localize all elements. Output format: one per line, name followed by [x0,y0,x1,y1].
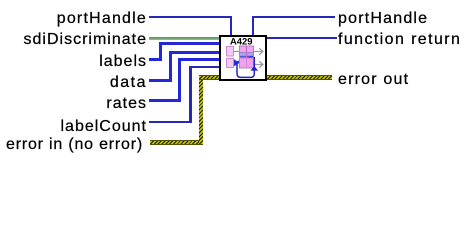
glyph blue diagonal [236,57,253,63]
glyph connector 1 [234,51,241,53]
glyph small square 2 [227,59,234,68]
glyph gray arrow 1 [254,48,263,55]
label error in (no error) [6,136,143,154]
label labels [0,53,147,71]
label rates [0,95,147,113]
wire rates horizontal to icon [178,58,220,61]
wire error-out horizontal [267,75,332,80]
glyph big rect 1 (2x2 grid) [240,46,254,53]
label labelCount [0,118,147,136]
wire rates vertical [178,58,181,102]
glyph loop [237,57,254,77]
label data [0,74,147,92]
wire portHandle-right horizontal [252,16,335,18]
wire labelCount horizontal to icon [189,66,220,68]
wire data vertical [169,51,172,82]
label portHandle (right) [338,10,428,28]
wire error-in vertical [199,75,203,145]
op icon A429 Discriminate VI [219,35,267,81]
wire labels vertical [159,42,162,61]
wire sdiDiscriminate green [149,37,220,40]
icon border [220,36,266,80]
wire portHandle-right vertical [252,16,254,35]
wire portHandle-left horizontal [149,16,232,18]
icon label A429 [230,38,252,45]
label portHandle (left) [0,10,147,28]
glyph loop up arrowhead [250,66,258,71]
label error out [338,71,409,89]
glyph big rect 2 [240,58,254,68]
wire error-in horizontal from label [150,140,203,145]
label sdiDiscriminate [0,31,147,49]
wire rates stub [149,99,181,102]
glyph small square 1 [227,47,234,57]
wire labels stub [149,58,162,61]
wire labelCount vertical [189,66,191,123]
wire function-return horizontal [267,37,337,39]
glyph gray arrow 2 [254,61,263,68]
wire labels horizontal to icon [159,42,220,45]
wire data horizontal to icon [169,51,220,54]
wire portHandle-left vertical [230,16,232,35]
wire data stub [149,79,172,82]
wire error-in top horizontal to icon [199,75,221,80]
label function return [338,31,461,49]
glyph blue right arrowhead [234,59,240,66]
wire labelCount stub [149,121,192,123]
